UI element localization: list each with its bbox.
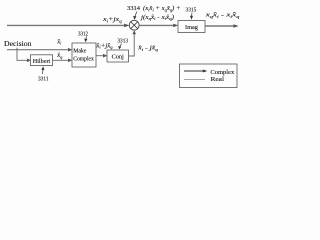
svg-text:3314: 3314 bbox=[127, 5, 141, 12]
svg-text:(xix̂i + xqx̂q) +: (xix̂i + xqx̂q) + bbox=[143, 5, 181, 12]
svg-text:Real: Real bbox=[211, 76, 225, 83]
ref designator 3313 with leader arrow bbox=[117, 38, 128, 50]
svg-text:Make: Make bbox=[73, 48, 87, 54]
svg-text:3312: 3312 bbox=[78, 30, 88, 37]
svg-text:3313: 3313 bbox=[117, 38, 128, 45]
block Make Complex 3312 bbox=[72, 43, 96, 67]
legend complex line sample bbox=[184, 70, 204, 72]
block Hilbert 3311 bbox=[31, 55, 53, 66]
ref designator 3311 with leader arrow bbox=[38, 66, 49, 82]
svg-text:j(xqx̂i - xix̂q): j(xqx̂i - xix̂q) bbox=[140, 14, 174, 21]
svg-text:xqx̂i - xix̂q: xqx̂i - xix̂q bbox=[204, 12, 240, 19]
wire Imag output bbox=[205, 25, 236, 27]
multiplier (mixer) 3314 bbox=[129, 20, 139, 30]
arrowhead into Hilbert bbox=[27, 59, 31, 63]
svg-text:3315: 3315 bbox=[186, 6, 197, 13]
ref designator 3312 with leader arrow bbox=[78, 30, 88, 42]
svg-text:x̂i - jx̂q: x̂i - jx̂q bbox=[137, 45, 158, 52]
arrowhead into Conj bbox=[103, 54, 107, 58]
svg-text:x̂i+jx̂q: x̂i+jx̂q bbox=[95, 42, 112, 49]
arrowhead output bbox=[234, 24, 239, 28]
svg-text:3311: 3311 bbox=[38, 75, 49, 82]
arrowhead into multiplier bottom bbox=[132, 30, 136, 34]
block Conj 3313 bbox=[107, 50, 129, 62]
arrowhead into Imag bbox=[173, 24, 178, 28]
arrowhead into Make Complex (bottom input) bbox=[68, 59, 72, 63]
wire Conj output up to multiplier bbox=[129, 33, 135, 57]
legend real line sample bbox=[184, 79, 205, 81]
arrowhead into Make Complex (top input) bbox=[68, 48, 72, 52]
wire main input x_i+jx_q bbox=[7, 24, 127, 26]
svg-text:Imag: Imag bbox=[185, 24, 199, 31]
svg-text:Hilbert: Hilbert bbox=[33, 58, 51, 65]
ref designator 3314 with leader arrow bbox=[127, 5, 141, 20]
legend box bbox=[180, 64, 238, 88]
ref designator 3315 with leader arrow bbox=[186, 6, 197, 19]
svg-text:Complex: Complex bbox=[210, 69, 235, 76]
block Imag 3315 bbox=[178, 21, 205, 33]
svg-text:Complex: Complex bbox=[73, 56, 94, 62]
wire multiplier to Imag bbox=[139, 24, 176, 26]
arrowhead into multiplier bbox=[124, 24, 129, 28]
junction and branch wire down to Hilbert bbox=[17, 48, 29, 61]
svg-text:Decision: Decision bbox=[4, 40, 32, 48]
svg-text:Conj: Conj bbox=[112, 54, 124, 61]
wire Make Complex to Conj bbox=[96, 55, 105, 57]
wire decision output bbox=[7, 49, 70, 51]
wire Hilbert output bbox=[53, 59, 71, 61]
